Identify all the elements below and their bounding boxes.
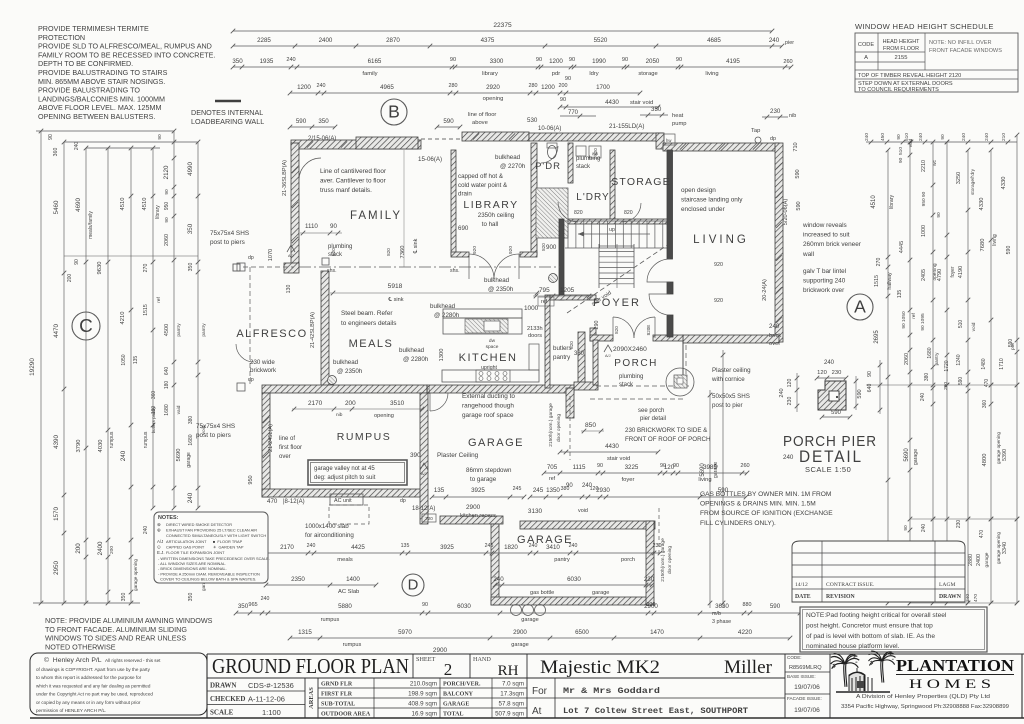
svg-text:135: 135 xyxy=(434,487,445,494)
ref circle A xyxy=(847,294,873,320)
svg-text:3410: 3410 xyxy=(546,544,560,551)
svg-text:up: up xyxy=(609,227,615,233)
svg-text:garage: garage xyxy=(984,552,990,567)
svg-text:butlers pantry: butlers pantry xyxy=(151,406,156,433)
svg-text:965: 965 xyxy=(248,602,257,608)
svg-text:Steel beam. Refer: Steel beam. Refer xyxy=(341,310,393,317)
svg-text:to garage: to garage xyxy=(470,476,497,483)
svg-text:240: 240 xyxy=(779,388,785,397)
svg-text:130: 130 xyxy=(286,285,292,294)
dim row: 1315 5970 2900 6500 1470 4220 xyxy=(290,637,790,639)
drawn/checked/scale rows xyxy=(207,690,305,692)
svg-text:C: C xyxy=(79,316,93,337)
wall: storage south xyxy=(565,219,670,224)
door: family west sliding arc xyxy=(299,158,321,180)
dim row: 4430 stair void xyxy=(560,451,658,453)
svg-text:5460: 5460 xyxy=(53,200,60,214)
svg-text:FIRST FLR: FIRST FLR xyxy=(321,692,353,698)
window ticks on living east wall xyxy=(776,163,782,169)
svg-text:260mm brick veneer: 260mm brick veneer xyxy=(803,241,862,248)
svg-text:post to piers: post to piers xyxy=(210,239,245,246)
svg-text:AREAS: AREAS xyxy=(308,687,315,709)
svg-text:foyer: foyer xyxy=(950,266,956,277)
svg-text:5690: 5690 xyxy=(176,449,182,462)
svg-text:900: 900 xyxy=(546,244,557,251)
svg-text:240: 240 xyxy=(307,543,316,549)
svg-text:20-24(A): 20-24(A) xyxy=(762,279,768,301)
svg-text:4510: 4510 xyxy=(120,198,126,211)
svg-text:doors: doors xyxy=(528,333,542,339)
svg-text:4690: 4690 xyxy=(75,198,82,212)
svg-text:External ducting to: External ducting to xyxy=(462,393,515,400)
wall: family south-west jog xyxy=(284,263,299,273)
svg-text:post to piers: post to piers xyxy=(196,432,231,439)
svg-text:240: 240 xyxy=(920,393,926,402)
svg-text:590: 590 xyxy=(796,201,802,210)
svg-text:door opening: door opening xyxy=(556,414,562,442)
top dimension chain row 2 xyxy=(233,45,782,47)
svg-text:PROTECTION: PROTECTION xyxy=(38,33,85,42)
svg-text:2920: 2920 xyxy=(486,84,500,91)
svg-text:240: 240 xyxy=(120,450,127,461)
svg-text:57.8 sqm: 57.8 sqm xyxy=(499,701,524,708)
svg-text:@ 2280h: @ 2280h xyxy=(403,356,429,363)
svg-text:240: 240 xyxy=(769,323,780,330)
svg-text:BALCONY: BALCONY xyxy=(443,692,474,698)
svg-text:90: 90 xyxy=(896,134,902,140)
svg-text:for airconditioning: for airconditioning xyxy=(305,532,354,539)
porch dashed roofline xyxy=(596,385,690,387)
svg-text:1990: 1990 xyxy=(592,58,606,65)
staircase lower flight treads xyxy=(599,245,634,247)
title block frame xyxy=(30,717,1024,719)
svg-text:PROVIDE SLD TO ALFRESCO/MEAL,: PROVIDE SLD TO ALFRESCO/MEAL, RUMPUS AND xyxy=(38,42,212,51)
svg-text:2350h ceiling: 2350h ceiling xyxy=(478,212,515,219)
svg-text:5520: 5520 xyxy=(594,37,608,44)
pdr toilet fixture xyxy=(548,146,557,159)
svg-text:bulkhead: bulkhead xyxy=(495,154,521,161)
porch pier detail drawing xyxy=(818,381,846,410)
right chain B xyxy=(909,142,911,603)
svg-text:R8569MLRQ: R8569MLRQ xyxy=(789,665,822,671)
wall: family west xyxy=(291,143,299,267)
svg-text:1315: 1315 xyxy=(298,629,312,636)
svg-text:CONTRACT ISSUE.: CONTRACT ISSUE. xyxy=(826,582,875,588)
svg-text:3510: 3510 xyxy=(390,400,405,407)
svg-text:5970: 5970 xyxy=(398,629,412,636)
svg-text:360: 360 xyxy=(53,148,59,157)
svg-text:ldry: ldry xyxy=(589,71,598,77)
svg-text:A/J: A/J xyxy=(288,254,294,258)
svg-text:void: void xyxy=(908,138,913,147)
svg-text:garage: garage xyxy=(186,452,192,468)
svg-text:first floor: first floor xyxy=(279,445,302,451)
svg-text:2060: 2060 xyxy=(164,234,170,246)
svg-text:15-06(A): 15-06(A) xyxy=(418,156,442,163)
wall: alfresco/meals divider xyxy=(321,271,329,387)
svg-text:4425: 4425 xyxy=(351,544,365,551)
svg-text:garage opening: garage opening xyxy=(996,432,1001,464)
smoke detector symbols xyxy=(549,274,558,283)
svg-text:795: 795 xyxy=(539,287,550,294)
svg-text:NOTE:Pad footing height critic: NOTE:Pad footing height critical for ove… xyxy=(806,612,947,619)
left dimension chain 3 xyxy=(85,148,87,603)
svg-text:19290: 19290 xyxy=(29,358,36,376)
svg-text:bulkhead: bulkhead xyxy=(430,303,456,310)
svg-text:590: 590 xyxy=(770,603,781,610)
box: garage valley note xyxy=(308,460,407,485)
svg-text:EXHAUST FAN PROVIDING 25 LT/SE: EXHAUST FAN PROVIDING 25 LT/SEC CLEAN AI… xyxy=(166,528,257,533)
svg-text:75x75x4 SHS: 75x75x4 SHS xyxy=(210,230,249,237)
garage left dimension pair 5690 xyxy=(709,390,711,608)
svg-text:90: 90 xyxy=(164,189,170,195)
svg-text:390: 390 xyxy=(410,452,421,459)
svg-text:2400: 2400 xyxy=(97,541,104,555)
svg-text:stack: stack xyxy=(619,382,634,388)
garage door opening dashes garage1 xyxy=(569,396,571,460)
dim row: foyer 3225 3985 xyxy=(544,472,747,474)
kitchen island bench xyxy=(443,309,522,318)
svg-text:drain: drain xyxy=(458,191,472,198)
svg-text:FRONT OF ROOF OF PORCH: FRONT OF ROOF OF PORCH xyxy=(625,436,710,443)
svg-text:staircase landing only: staircase landing only xyxy=(681,197,743,204)
svg-text:50x50x5 SHS: 50x50x5 SHS xyxy=(712,393,750,400)
svg-text:75x75x4 SHS: 75x75x4 SHS xyxy=(196,423,235,430)
svg-text:FACADE ISSUE:: FACADE ISSUE: xyxy=(787,696,822,701)
svg-text:DRAWN: DRAWN xyxy=(939,594,962,600)
ref circle C xyxy=(72,312,100,340)
staircase upper flight treads xyxy=(567,221,569,248)
overall width dimension 22375 xyxy=(233,30,772,32)
wall: hatched feature wall pdr xyxy=(536,188,568,238)
svg-text:AC unit: AC unit xyxy=(334,498,352,504)
svg-text:1200: 1200 xyxy=(541,84,555,91)
top dimension chain row 4 xyxy=(290,92,640,94)
svg-text:7360: 7360 xyxy=(400,246,406,259)
svg-text:space: space xyxy=(486,345,499,350)
svg-text:90: 90 xyxy=(660,463,666,469)
svg-text:enclosed under: enclosed under xyxy=(681,206,726,213)
svg-text:380: 380 xyxy=(924,373,930,382)
svg-text:bulkhead: bulkhead xyxy=(333,359,359,366)
svg-text:B: B xyxy=(388,101,400,121)
svg-text:14/12: 14/12 xyxy=(795,582,808,588)
svg-text:240: 240 xyxy=(961,133,967,141)
svg-text:WINDOW HEAD HEIGHT SCHEDULE: WINDOW HEAD HEIGHT SCHEDULE xyxy=(855,22,994,31)
wall: pdr north xyxy=(462,132,529,141)
svg-text:920: 920 xyxy=(714,262,723,268)
svg-text:GRND FLR: GRND FLR xyxy=(321,682,353,688)
svg-text:4210: 4210 xyxy=(120,312,126,325)
svg-text:590: 590 xyxy=(831,410,841,416)
svg-text:Line of cantilvered floor: Line of cantilvered floor xyxy=(320,168,387,175)
svg-text:3925: 3925 xyxy=(440,544,454,551)
svg-text:BASE ISSUE:: BASE ISSUE: xyxy=(787,674,816,679)
svg-text:3354 Pacific Highway, Springwo: 3354 Pacific Highway, Springwood Ph:3290… xyxy=(841,704,1009,710)
svg-text:HAND: HAND xyxy=(473,656,491,663)
svg-text:3300: 3300 xyxy=(490,58,504,65)
svg-text:D: D xyxy=(408,578,419,594)
svg-text:garage valley not at 45: garage valley not at 45 xyxy=(314,466,375,472)
svg-text:90: 90 xyxy=(867,371,873,377)
svg-text:240: 240 xyxy=(74,142,80,151)
svg-text:dp: dp xyxy=(400,498,406,504)
svg-text:dw: dw xyxy=(489,338,496,344)
svg-text:4790: 4790 xyxy=(937,269,943,281)
svg-text:pier: pier xyxy=(785,40,794,46)
svg-text:FRONT FACADE WINDOWS: FRONT FACADE WINDOWS xyxy=(929,48,1002,54)
svg-text:TO FRONT FACADE. ALUMINIUM SLI: TO FRONT FACADE. ALUMINIUM SLIDING xyxy=(45,625,187,634)
svg-text:A: A xyxy=(854,296,866,316)
svg-text:1000: 1000 xyxy=(524,305,539,312)
svg-text:90: 90 xyxy=(164,217,170,223)
svg-text:1710: 1710 xyxy=(999,358,1005,370)
svg-text:1680: 1680 xyxy=(188,434,194,445)
right chain C xyxy=(932,142,934,603)
svg-text:2170: 2170 xyxy=(308,400,323,407)
svg-text:Plaster ceiling: Plaster ceiling xyxy=(712,367,751,374)
svg-text:of drawings is COPYRIGHT. Apar: of drawings is COPYRIGHT. Apart from use… xyxy=(36,667,151,672)
svg-text:gas bottle: gas bottle xyxy=(530,590,554,596)
svg-text:2900: 2900 xyxy=(466,504,481,511)
svg-text:vaid: vaid xyxy=(176,405,182,414)
svg-text:4470: 4470 xyxy=(53,324,60,338)
wall: pdr-ldry divider xyxy=(568,143,573,183)
svg-text:of pad is level with bottom of: of pad is level with bottom of slab. IE.… xyxy=(806,633,935,640)
svg-text:86mm stepdown: 86mm stepdown xyxy=(466,467,512,474)
svg-text:90: 90 xyxy=(450,57,456,63)
svg-text:240: 240 xyxy=(984,133,990,141)
svg-text:FOYER: FOYER xyxy=(593,297,641,309)
svg-text:to engineers details: to engineers details xyxy=(341,320,396,327)
svg-text:820: 820 xyxy=(614,326,619,334)
svg-text:210.0sqm: 210.0sqm xyxy=(410,681,437,688)
svg-text:230 BRICKWORK TO SIDE &: 230 BRICKWORK TO SIDE & xyxy=(625,427,708,434)
dim row: 5880 6030 2900 xyxy=(236,612,800,614)
svg-text:line of floor: line of floor xyxy=(468,112,496,118)
wall: garage2 east xyxy=(646,521,654,605)
svg-text:garage: garage xyxy=(521,617,538,623)
areas table xyxy=(318,687,527,689)
svg-text:240: 240 xyxy=(143,526,149,535)
svg-text:6030: 6030 xyxy=(457,603,471,610)
svg-text:230: 230 xyxy=(787,397,793,406)
shs post square bottom-left of rumpus xyxy=(233,264,240,271)
svg-text:21-155LD(A): 21-155LD(A) xyxy=(609,123,644,130)
dim 590 and floor-line note above pdr xyxy=(437,126,460,128)
svg-text:1070: 1070 xyxy=(268,249,274,261)
svg-text:135: 135 xyxy=(133,356,139,365)
svg-text:FAMILY ROOM TO BE RECESSED INT: FAMILY ROOM TO BE RECESSED INTO CONCRETE… xyxy=(38,50,215,59)
svg-text:FAMILY: FAMILY xyxy=(350,210,402,222)
svg-text:bulkhead: bulkhead xyxy=(399,347,425,354)
wall: garage2 west xyxy=(491,524,499,605)
note box: pad footing xyxy=(800,607,987,652)
svg-text:90: 90 xyxy=(560,97,566,103)
svg-text:90: 90 xyxy=(74,259,80,265)
ac unit dashed box xyxy=(330,494,363,505)
svg-text:CHECKED: CHECKED xyxy=(210,695,245,703)
svg-text:530: 530 xyxy=(527,117,538,124)
svg-text:GARAGE: GARAGE xyxy=(517,534,573,546)
svg-text:90: 90 xyxy=(569,57,575,63)
svg-text:590: 590 xyxy=(296,118,307,125)
svg-text:OPENING BETWEEN BALUSTERS.: OPENING BETWEEN BALUSTERS. xyxy=(38,112,155,121)
svg-text:1:100: 1:100 xyxy=(262,708,281,717)
left block top terminator lines xyxy=(36,130,174,132)
svg-text:SHEET: SHEET xyxy=(416,656,435,663)
svg-text:5390: 5390 xyxy=(1002,449,1008,461)
svg-text:1000: 1000 xyxy=(921,225,927,237)
svg-text:library: library xyxy=(155,205,161,219)
svg-text:510: 510 xyxy=(958,320,964,329)
svg-text:507.9 sqm: 507.9 sqm xyxy=(495,711,524,718)
svg-text:200: 200 xyxy=(75,543,82,554)
svg-text:950: 950 xyxy=(164,202,170,211)
wall: porch east pier xyxy=(682,341,684,387)
svg-text:6165: 6165 xyxy=(368,58,382,65)
svg-text:90: 90 xyxy=(622,57,628,63)
svg-text:All rights reserved - this set: All rights reserved - this set xyxy=(105,658,161,663)
svg-text:90: 90 xyxy=(903,525,909,531)
svg-text:plumbing: plumbing xyxy=(576,156,600,162)
dim 590/350 above family wall xyxy=(290,126,335,128)
svg-text:3790: 3790 xyxy=(76,440,82,453)
svg-text:NOTED OTHERWISE: NOTED OTHERWISE xyxy=(45,642,116,651)
svg-text:which it was requested and any: which it was requested and any fair deal… xyxy=(36,683,151,688)
svg-text:90: 90 xyxy=(673,463,679,469)
left dimension chain 5 xyxy=(130,148,132,603)
svg-text:240: 240 xyxy=(569,543,578,549)
door: alfresco corner arc xyxy=(236,344,254,362)
svg-text:240: 240 xyxy=(921,524,927,533)
svg-text:4330: 4330 xyxy=(1001,177,1007,190)
svg-text:640: 640 xyxy=(164,367,170,376)
svg-text:nib: nib xyxy=(789,113,796,119)
svg-text:open design: open design xyxy=(681,187,716,194)
svg-text:5880: 5880 xyxy=(338,603,352,610)
svg-text:230: 230 xyxy=(647,602,656,608)
svg-text:2133h: 2133h xyxy=(527,326,543,332)
svg-text:90 1095: 90 1095 xyxy=(920,313,926,331)
svg-text:void: void xyxy=(971,322,977,331)
svg-text:1200: 1200 xyxy=(549,58,563,65)
svg-text:heat: heat xyxy=(672,113,684,119)
svg-text:FLOOR TILE EXPANSION JOINT: FLOOR TILE EXPANSION JOINT xyxy=(166,550,225,555)
svg-text:210: 210 xyxy=(1001,133,1007,141)
top dimension chain row 3 xyxy=(233,66,791,68)
svg-text:4685: 4685 xyxy=(707,37,721,44)
svg-text:4220: 4220 xyxy=(738,629,753,636)
svg-text:DRAWN: DRAWN xyxy=(210,682,236,690)
svg-text:2210: 2210 xyxy=(921,160,927,172)
svg-text:SCALE: SCALE xyxy=(210,709,234,717)
svg-text:2: 2 xyxy=(444,660,453,679)
svg-text:2950: 2950 xyxy=(53,561,60,575)
wall: front entry wall with door opening xyxy=(590,328,596,341)
svg-text:3630: 3630 xyxy=(715,603,729,610)
svg-text:stair void: stair void xyxy=(630,100,653,106)
left dimension chain 6 xyxy=(152,148,154,508)
svg-text:4375: 4375 xyxy=(481,37,495,44)
wall: living east xyxy=(775,143,783,342)
svg-text:3 phase: 3 phase xyxy=(712,619,731,625)
wall: garage1 west xyxy=(420,393,428,524)
top dimension chain row 5 - stair void xyxy=(560,106,658,108)
svg-text:hallway: hallway xyxy=(887,272,893,290)
svg-text:Miller: Miller xyxy=(724,658,772,678)
svg-text:240: 240 xyxy=(187,492,194,503)
svg-text:230: 230 xyxy=(653,543,662,549)
svg-text:590: 590 xyxy=(795,169,801,178)
svg-text:rumpus: rumpus xyxy=(321,617,340,623)
svg-text:880: 880 xyxy=(743,602,752,608)
svg-text:CONNECTED SIMULTANEOUSLY WITH: CONNECTED SIMULTANEOUSLY WITH LIGHT SWIT… xyxy=(166,533,266,538)
svg-text:see porch: see porch xyxy=(638,408,664,414)
svg-text:library: library xyxy=(482,71,498,77)
svg-text:brick: brick xyxy=(769,333,781,339)
svg-text:470: 470 xyxy=(979,530,985,539)
hand cell xyxy=(469,654,471,678)
svg-text:1240: 1240 xyxy=(956,354,962,365)
svg-text:pantry: pantry xyxy=(553,354,571,361)
left dimension chain 7 xyxy=(173,131,175,508)
wall: living north xyxy=(663,143,779,151)
svg-text:ARTICULATION JOINT ■ FLO: ARTICULATION JOINT ■ FLOOR TRAP xyxy=(166,539,243,544)
wall: meals-garage / rumpus north xyxy=(262,385,427,393)
notes legend box xyxy=(154,512,268,583)
svg-text:4965: 4965 xyxy=(380,84,394,91)
contract issue table xyxy=(792,541,965,602)
svg-text:245: 245 xyxy=(513,486,522,492)
svg-text:2090X2460: 2090X2460 xyxy=(613,346,647,353)
svg-text:FILL CYLINDERS ONLY).: FILL CYLINDERS ONLY). xyxy=(700,520,776,527)
svg-text:920: 920 xyxy=(472,246,478,254)
svg-text:A/J: A/J xyxy=(157,539,163,544)
svg-text:deg: adjust pitch to suit: deg: adjust pitch to suit xyxy=(314,475,376,481)
wall: library south with door opening xyxy=(451,252,469,257)
svg-text:7.0 sqm: 7.0 sqm xyxy=(502,681,524,688)
svg-text:opening: opening xyxy=(483,96,504,102)
svg-text:240: 240 xyxy=(286,57,295,63)
svg-text:820: 820 xyxy=(426,386,431,394)
svg-text:280: 280 xyxy=(449,83,458,89)
svg-text:KITCHEN: KITCHEN xyxy=(459,352,518,364)
A/J markers xyxy=(287,245,295,252)
svg-text:storage: storage xyxy=(638,71,657,77)
svg-text:360: 360 xyxy=(982,400,988,409)
svg-text:1820: 1820 xyxy=(504,544,518,551)
svg-text:pantry: pantry xyxy=(176,323,182,337)
svg-text:stack: stack xyxy=(576,164,591,170)
svg-text:120: 120 xyxy=(817,370,827,376)
svg-text:@ 2350h: @ 2350h xyxy=(488,286,514,293)
svg-text:280: 280 xyxy=(529,83,538,89)
svg-text:Mr & Mrs Goddard: Mr & Mrs Goddard xyxy=(563,686,660,696)
svg-text:to whom this report is address: to whom this report is addressed for the… xyxy=(36,675,142,680)
svg-text:230: 230 xyxy=(644,576,655,583)
svg-text:1110: 1110 xyxy=(305,223,318,230)
dim row: 2930 590 xyxy=(530,496,746,498)
design name cell: Majestic MK2 / Miller xyxy=(526,654,528,718)
svg-text:820: 820 xyxy=(331,248,336,256)
svg-text:1680: 1680 xyxy=(164,404,170,416)
svg-text:4390: 4390 xyxy=(53,435,60,449)
svg-text:CODE: CODE xyxy=(858,42,874,48)
svg-text:820E: 820E xyxy=(646,325,651,336)
wall: porch west xyxy=(578,332,585,388)
svg-text:198.9 sqm: 198.9 sqm xyxy=(408,691,437,698)
